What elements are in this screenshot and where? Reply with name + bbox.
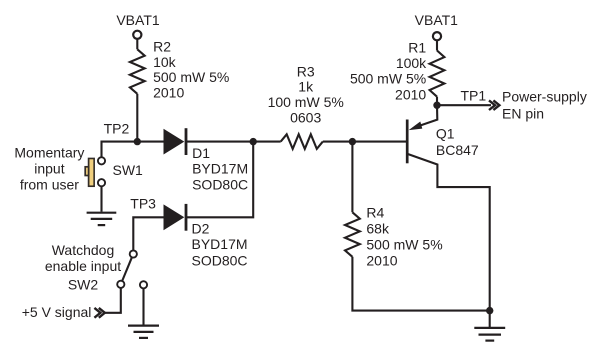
switch SW1 bottom terminal bbox=[98, 179, 105, 186]
wire R4 bottom to ground node bbox=[352, 257, 489, 311]
svg-text:TP2: TP2 bbox=[104, 121, 130, 137]
svg-text:VBAT1: VBAT1 bbox=[116, 12, 160, 28]
svg-text:from user: from user bbox=[20, 177, 79, 193]
svg-text:SOD80C: SOD80C bbox=[192, 252, 248, 268]
annotation: Power-supply EN pin bbox=[502, 89, 587, 122]
wire TP3 corner to D2 anode bbox=[133, 217, 164, 250]
svg-text:+5 V signal: +5 V signal bbox=[22, 304, 92, 320]
svg-text:BYD17M: BYD17M bbox=[192, 236, 248, 252]
wire TP2 node to SW1 bbox=[102, 142, 138, 157]
svg-text:input: input bbox=[34, 161, 64, 177]
svg-text:500 mW 5%: 500 mW 5% bbox=[153, 69, 229, 85]
Q1 top (emitter) wire from TP1 node bbox=[418, 105, 437, 126]
svg-text:68k: 68k bbox=[366, 220, 390, 236]
svg-text:enable input: enable input bbox=[45, 258, 121, 274]
annotation: Watchdog enable input SW2 bbox=[45, 242, 121, 292]
Q1 label bbox=[436, 126, 479, 158]
Q1 emitter arrowhead bbox=[409, 122, 423, 131]
diode D1 bbox=[164, 128, 187, 155]
svg-text:SW2: SW2 bbox=[68, 276, 99, 292]
ground under SW2 bbox=[128, 326, 159, 338]
wire ground node to ground symbol bbox=[489, 311, 491, 327]
svg-text:1k: 1k bbox=[298, 79, 314, 95]
svg-text:2010: 2010 bbox=[366, 252, 397, 268]
junction ground node bbox=[486, 307, 493, 314]
svg-text:R4: R4 bbox=[366, 204, 384, 220]
svg-text:BYD17M: BYD17M bbox=[192, 161, 248, 177]
junction base node bbox=[349, 138, 356, 145]
wire D1 cathode to node A bbox=[186, 141, 253, 143]
svg-text:0603: 0603 bbox=[290, 110, 321, 126]
resistor R1 bbox=[430, 51, 445, 97]
annotation: Momentary input from user bbox=[14, 145, 84, 193]
switch SW2 right lower terminal bbox=[140, 281, 147, 288]
TP1 output chevron bbox=[489, 100, 499, 110]
svg-text:100k: 100k bbox=[396, 55, 427, 71]
wire R3 to base node bbox=[323, 141, 353, 143]
svg-text:Momentary: Momentary bbox=[14, 145, 84, 161]
wire SW2 right terminal to ground bbox=[142, 288, 144, 324]
junction at TP2 node bbox=[134, 138, 141, 145]
svg-text:D2: D2 bbox=[192, 220, 210, 236]
svg-text:R1: R1 bbox=[408, 39, 426, 55]
svg-text:500 mW 5%: 500 mW 5% bbox=[366, 236, 442, 252]
svg-text:VBAT1: VBAT1 bbox=[415, 12, 459, 28]
svg-text:Q1: Q1 bbox=[436, 126, 455, 142]
svg-text:BC847: BC847 bbox=[436, 142, 479, 158]
wire VBAT1 terminal to R1 top bbox=[436, 40, 438, 50]
wire D2 cathode up to node A bbox=[186, 142, 253, 218]
wire R1 bottom to TP1 node bbox=[436, 97, 438, 106]
wire R2 bottom to TP2 node bbox=[136, 94, 138, 142]
ground under Q1/R4 bbox=[474, 328, 505, 341]
wire SW2 left terminal to +5V chevron bbox=[104, 288, 121, 313]
wire TP2 node to D1 anode bbox=[137, 141, 164, 143]
wire base node to Q1 base bbox=[352, 141, 406, 143]
D1 value labels bbox=[192, 145, 248, 192]
diode D2 bbox=[164, 204, 187, 231]
switch SW2 left lower terminal bbox=[117, 281, 124, 288]
svg-text:TP3: TP3 bbox=[130, 196, 156, 212]
junction node A (diode-OR output) bbox=[250, 138, 257, 145]
svg-text:SW1: SW1 bbox=[113, 162, 144, 178]
ground under SW1 bbox=[87, 213, 117, 225]
svg-text:Power-supply: Power-supply bbox=[502, 89, 587, 105]
D2 value labels bbox=[192, 220, 248, 268]
svg-text:500 mW 5%: 500 mW 5% bbox=[350, 71, 426, 87]
svg-text:EN pin: EN pin bbox=[502, 105, 544, 121]
switch SW1 top terminal bbox=[98, 157, 105, 164]
VBAT1 right terminal bbox=[433, 32, 441, 40]
R2 value labels bbox=[153, 38, 229, 100]
svg-text:D1: D1 bbox=[192, 145, 210, 161]
svg-text:2010: 2010 bbox=[153, 85, 184, 101]
wire VBAT1 terminal to R2 top bbox=[136, 39, 138, 49]
R4 value labels bbox=[366, 204, 442, 268]
transistor Q1 base bar bbox=[406, 120, 409, 164]
svg-text:2010: 2010 bbox=[395, 86, 426, 102]
switch SW1 pushbutton actuator bbox=[85, 159, 94, 187]
resistor R3 bbox=[281, 134, 323, 149]
+5V input chevron bbox=[94, 308, 104, 318]
svg-text:TP1: TP1 bbox=[461, 87, 487, 103]
wire base node down to R4 bbox=[351, 142, 353, 213]
svg-text:10k: 10k bbox=[153, 54, 177, 70]
switch SW2 arm bbox=[122, 257, 132, 281]
wire TP1 node to output chevron bbox=[437, 104, 491, 106]
svg-text:100 mW 5%: 100 mW 5% bbox=[268, 94, 344, 110]
wire node A to R3 bbox=[253, 141, 281, 143]
svg-text:R3: R3 bbox=[297, 63, 315, 79]
wire SW1 to ground bbox=[100, 186, 102, 211]
svg-text:R2: R2 bbox=[153, 38, 171, 54]
junction at TP1 node bbox=[433, 102, 440, 109]
resistor R4 bbox=[345, 212, 360, 256]
switch SW2 top terminal bbox=[130, 250, 137, 257]
svg-text:SOD80C: SOD80C bbox=[192, 176, 248, 192]
Q1 bottom (collector) diagonal and wire to ground node bbox=[408, 154, 490, 311]
svg-text:Watchdog: Watchdog bbox=[52, 242, 115, 258]
R3 value labels bbox=[268, 63, 344, 125]
R1 value labels bbox=[350, 39, 427, 102]
resistor R2 bbox=[130, 49, 145, 94]
VBAT1 left terminal bbox=[133, 31, 141, 39]
